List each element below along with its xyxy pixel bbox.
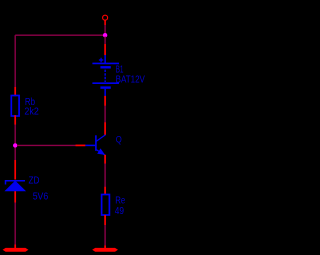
terminal node (output pin circle): [103, 15, 108, 25]
wire battery to transistor collector: [104, 106, 106, 123]
svg-text:Q: Q: [116, 135, 122, 146]
svg-text:5V6: 5V6: [33, 191, 49, 202]
wire Rb to junction B: [14, 125, 16, 144]
wire emitter to Re: [104, 164, 106, 188]
wire base horizontal: [17, 144, 76, 146]
zener diode ZD: [5, 160, 25, 203]
node A junction dot: [103, 33, 107, 37]
label B1 BAT12V: [116, 65, 146, 86]
wire left vertical to Rb: [14, 35, 16, 87]
label Rb 2k2: [24, 97, 39, 118]
wire terminal to junction A: [104, 25, 106, 34]
resistor Re: [102, 187, 110, 225]
battery B1: [92, 44, 119, 106]
wire Re to ground: [104, 225, 106, 245]
wire base red pin: [76, 144, 86, 146]
wire top horizontal: [15, 34, 105, 36]
wire ZD to ground: [14, 203, 16, 245]
resistor Rb: [11, 87, 19, 125]
ground right: [92, 245, 118, 251]
svg-text:ZD: ZD: [29, 176, 40, 187]
label Re 49: [115, 196, 126, 217]
wire junction B to ZD: [14, 148, 16, 161]
svg-text:49: 49: [115, 206, 125, 217]
wire junction A to battery: [104, 37, 106, 45]
transistor Q: [85, 122, 105, 163]
svg-text:BAT12V: BAT12V: [116, 75, 146, 86]
node B junction dot: [13, 143, 17, 147]
svg-text:2k2: 2k2: [24, 107, 39, 118]
label ZD 5V6: [29, 176, 49, 203]
ground left: [3, 245, 29, 252]
